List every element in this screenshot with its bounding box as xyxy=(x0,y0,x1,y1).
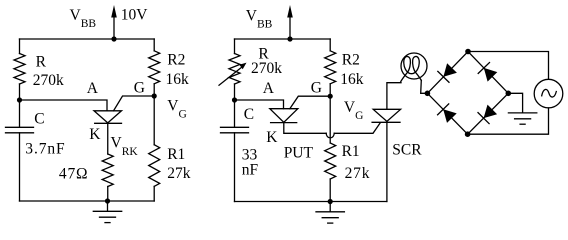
capacitor C xyxy=(6,127,34,133)
node bridge left xyxy=(425,91,431,97)
svg-text:10V: 10V xyxy=(121,7,149,24)
wire top of R xyxy=(19,39,21,54)
svg-text:VG: VG xyxy=(344,99,364,122)
node A xyxy=(232,97,237,102)
node at ground xyxy=(105,198,110,203)
node at ground xyxy=(328,199,333,204)
ground AC circuit xyxy=(508,113,536,124)
svg-text:16k: 16k xyxy=(166,71,190,88)
wire C to bottom rail xyxy=(19,133,21,201)
svg-text:K: K xyxy=(89,126,101,143)
node G xyxy=(328,94,333,99)
svg-text:R2: R2 xyxy=(342,51,360,68)
wire SCR cathode xyxy=(386,122,388,201)
wire R2 to R1 xyxy=(153,84,155,145)
wire R1 to rail xyxy=(153,186,155,201)
power supply arrow V_BB xyxy=(287,5,293,39)
svg-text:270k: 270k xyxy=(33,72,64,89)
svg-text:R: R xyxy=(36,53,47,70)
wire bridge side bottom-left xyxy=(427,93,467,134)
svg-text:VBB: VBB xyxy=(246,7,273,30)
wire SCR anode xyxy=(387,83,401,110)
node bridge bottom xyxy=(465,131,471,137)
svg-text:27k: 27k xyxy=(345,165,371,182)
svg-text:nF: nF xyxy=(242,162,259,179)
wire cathode xyxy=(107,123,109,154)
power supply arrow V_BB 10V xyxy=(111,5,117,39)
wire R to node A xyxy=(19,84,21,127)
resistor R xyxy=(14,54,25,85)
svg-text:A: A xyxy=(87,80,99,97)
svg-text:R2: R2 xyxy=(167,51,185,68)
svg-text:270k: 270k xyxy=(251,60,282,77)
diode D2 xyxy=(438,104,457,123)
wire G to R1 xyxy=(329,96,331,143)
svg-text:16k: 16k xyxy=(340,71,364,88)
wire lamp to bridge xyxy=(421,80,428,93)
resistor R1 xyxy=(325,143,336,179)
wire R1 to rail xyxy=(329,179,331,202)
gate wire of Q2 xyxy=(290,96,330,109)
SCR Q3 xyxy=(372,109,401,122)
wire R to node A xyxy=(234,84,236,127)
svg-text:VRK: VRK xyxy=(111,134,139,158)
wire bottom rail middle circuit xyxy=(235,201,387,203)
wire 47ohm to rail xyxy=(107,187,109,202)
diode D1 xyxy=(438,63,457,82)
wire AC source to bridge bottom xyxy=(468,108,549,134)
wire rail to R2 xyxy=(153,39,155,51)
svg-text:R1: R1 xyxy=(167,146,185,163)
node bridge top xyxy=(465,49,471,55)
wire bridge top to AC source xyxy=(468,52,549,80)
wire R2 to node G xyxy=(329,84,331,96)
svg-text:VBB: VBB xyxy=(70,7,97,30)
node bridge right xyxy=(506,91,512,97)
AC source xyxy=(534,79,563,108)
capacitor C xyxy=(221,127,249,133)
wire bridge side bottom-right xyxy=(468,93,509,134)
diode D4 xyxy=(478,105,497,124)
variable resistor R xyxy=(219,54,247,86)
node G xyxy=(152,93,157,98)
wire bridge right to ground xyxy=(508,93,522,113)
svg-text:A: A xyxy=(263,80,275,97)
svg-text:C: C xyxy=(244,106,254,123)
node A xyxy=(17,97,22,102)
wire bridge side top-right xyxy=(468,52,508,94)
resistor R2 xyxy=(149,51,160,84)
svg-text:3.7nF: 3.7nF xyxy=(25,141,65,158)
wire top of R xyxy=(234,39,236,54)
wire anode xyxy=(20,100,108,111)
svg-text:47Ω: 47Ω xyxy=(59,166,88,183)
node junction at supply arrow xyxy=(287,36,292,41)
resistor 47ohm xyxy=(102,154,113,187)
resistor R1 xyxy=(149,145,160,187)
svg-text:R1: R1 xyxy=(342,143,360,160)
gate wire of Q1 xyxy=(114,96,155,111)
lamp xyxy=(401,53,427,82)
svg-text:VG: VG xyxy=(167,97,187,120)
svg-text:27k: 27k xyxy=(167,165,191,182)
svg-text:K: K xyxy=(266,129,278,146)
svg-text:G: G xyxy=(311,80,322,97)
diode D3 xyxy=(478,63,497,82)
wire rail to R2 xyxy=(329,39,331,51)
PUT Q2 xyxy=(270,109,298,123)
resistor R2 xyxy=(325,51,336,84)
ground middle circuit xyxy=(316,202,344,224)
svg-text:C: C xyxy=(34,110,44,127)
wire C to bottom rail xyxy=(234,133,236,202)
svg-text:SCR: SCR xyxy=(392,141,422,158)
wire bottom rail left circuit xyxy=(20,200,155,202)
wire bridge side top-left xyxy=(427,52,468,94)
wire top rail left circuit xyxy=(20,38,155,40)
svg-text:PUT: PUT xyxy=(284,145,314,162)
PUT Q1 xyxy=(94,111,122,124)
wire cathode to SCR gate with hop xyxy=(284,123,380,138)
wire top rail middle circuit xyxy=(235,38,331,40)
node junction at supply arrow xyxy=(111,36,116,41)
wire anode xyxy=(235,100,284,109)
ground left circuit xyxy=(93,201,121,223)
svg-text:G: G xyxy=(134,79,145,96)
